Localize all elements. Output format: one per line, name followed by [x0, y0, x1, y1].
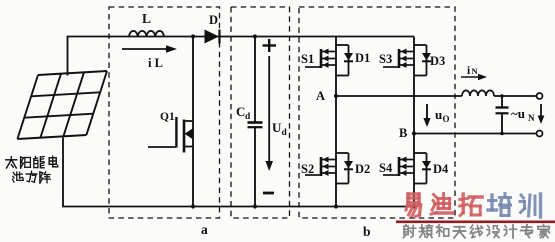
wire: node A to output (crosses right leg): [336, 95, 462, 97]
svg-text:u: u: [435, 107, 442, 122]
svg-text:N: N: [528, 113, 535, 123]
label ~uN and arrow: [511, 104, 544, 124]
svg-text:~u: ~u: [511, 106, 525, 121]
wire: right bridge leg: [413, 37, 415, 207]
watermark underline: [396, 221, 555, 224]
label S3: [379, 52, 392, 66]
wire: node B to output: [414, 133, 539, 135]
dashed box b (H-bridge inverter stage): [299, 7, 455, 218]
plus sign: [263, 39, 277, 52]
label b: [363, 224, 371, 239]
label: solar cell array (taiyangneng dianchi fangzhen): [6, 156, 58, 183]
watermark: blue characters pei xun: [488, 194, 541, 218]
diode D1 (antiparallel): [336, 45, 353, 76]
transistor Q1: [148, 37, 193, 207]
svg-text:D4: D4: [433, 162, 449, 176]
svg-text:L: L: [142, 11, 151, 26]
svg-text:N: N: [472, 66, 479, 76]
output inductor: [462, 90, 539, 96]
wire: left bridge leg: [335, 37, 337, 207]
svg-text:C: C: [236, 104, 245, 119]
wire: PV positive to top rail: [67, 37, 69, 76]
current arrow iN: [461, 65, 487, 80]
solar panel PV array: [17, 71, 107, 139]
dashed box (DC-link capacitor stage): [231, 7, 290, 218]
svg-text:D2: D2: [355, 162, 370, 176]
output terminal bottom: [537, 131, 543, 137]
wire: top rail: [67, 36, 414, 38]
svg-text:D: D: [209, 13, 218, 27]
svg-text:S1: S1: [301, 52, 314, 66]
svg-text:b: b: [363, 224, 371, 239]
transistor S2: [305, 157, 336, 177]
wire: PV negative drop: [62, 138, 64, 207]
svg-text:A: A: [316, 89, 325, 103]
current arrow iL: [122, 45, 177, 70]
transistor S1: [305, 49, 336, 69]
diode D4 (antiparallel): [414, 153, 431, 184]
transistor S4: [383, 157, 414, 177]
dashed box a (boost converter stage): [109, 7, 220, 218]
watermark: gray slogan (RF and antenna design experts): [403, 225, 549, 238]
voltage arrow uO: [423, 104, 449, 127]
svg-text:i L: i L: [148, 56, 163, 70]
svg-text:Q1: Q1: [160, 111, 175, 123]
output terminal top: [537, 93, 543, 99]
label D4: [433, 162, 449, 176]
diode D2 (antiparallel): [336, 153, 353, 184]
wire: bottom rail: [62, 206, 415, 208]
voltage arrow Ud: [265, 56, 287, 171]
label D3: [430, 54, 445, 68]
label S4: [379, 161, 393, 175]
watermark: red characters yi di tuo: [406, 194, 482, 217]
svg-text:B: B: [399, 126, 407, 140]
minus sign: [263, 192, 274, 195]
node B: [399, 126, 416, 140]
label S2: [301, 162, 314, 176]
label D1: [355, 51, 370, 65]
label S1: [301, 52, 314, 66]
svg-text:D3: D3: [430, 54, 445, 68]
output filter capacitor: [496, 96, 509, 134]
diode D3 (antiparallel): [414, 45, 431, 76]
diode D: [205, 13, 220, 44]
node A: [316, 89, 338, 103]
svg-text:d: d: [282, 128, 288, 138]
svg-text:S2: S2: [301, 162, 314, 176]
label a: [201, 222, 208, 237]
svg-text:d: d: [245, 112, 251, 122]
svg-text:S3: S3: [379, 52, 392, 66]
capacitor Cd: [236, 37, 263, 207]
svg-text:a: a: [201, 222, 208, 237]
svg-text:U: U: [272, 120, 282, 135]
transistor S3: [383, 49, 414, 69]
svg-text:S4: S4: [379, 161, 393, 175]
svg-text:O: O: [443, 114, 450, 124]
svg-text:D1: D1: [355, 51, 370, 65]
inductor L: [129, 11, 164, 37]
label D2: [355, 162, 370, 176]
